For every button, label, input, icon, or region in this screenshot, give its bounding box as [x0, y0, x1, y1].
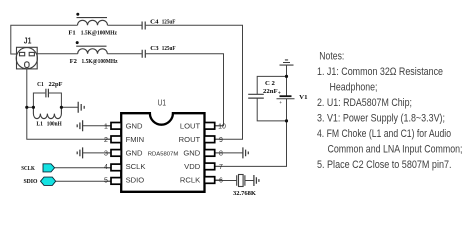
svg-text:C1: C1 — [37, 81, 44, 88]
svg-text:9: 9 — [219, 137, 223, 144]
svg-text:2: 2 — [104, 137, 108, 144]
svg-text:SDIO: SDIO — [24, 178, 38, 185]
svg-text:1.5K@100MHz: 1.5K@100MHz — [81, 29, 117, 36]
svg-text:125uF: 125uF — [162, 45, 176, 52]
svg-text:F2: F2 — [70, 58, 77, 65]
svg-text:6: 6 — [219, 178, 223, 185]
svg-text:4. FM Choke (L1 and C1) for Au: 4. FM Choke (L1 and C1) for Audio — [317, 128, 451, 140]
svg-text:GND: GND — [126, 122, 143, 131]
svg-text:1: 1 — [104, 123, 108, 130]
svg-text:U1: U1 — [158, 99, 167, 108]
svg-text:Notes:: Notes: — [319, 51, 344, 63]
svg-text:1.5K@100MHz: 1.5K@100MHz — [82, 58, 118, 65]
svg-text:4: 4 — [104, 164, 108, 171]
svg-text:V1: V1 — [299, 94, 307, 101]
svg-text:F1: F1 — [68, 29, 75, 36]
svg-text:125uF: 125uF — [162, 18, 176, 25]
svg-text:RCLK: RCLK — [180, 176, 200, 185]
svg-text:22nF: 22nF — [263, 88, 278, 95]
svg-text:+: + — [278, 91, 281, 97]
svg-text:Headphone;: Headphone; — [330, 82, 378, 94]
svg-text:L1: L1 — [36, 120, 43, 127]
svg-text:3: 3 — [104, 150, 108, 157]
svg-text:SCLK: SCLK — [126, 162, 146, 171]
svg-text:5: 5 — [104, 178, 108, 185]
svg-text:J1: J1 — [24, 36, 32, 46]
svg-text:VDD: VDD — [184, 162, 201, 171]
svg-text:10: 10 — [218, 123, 226, 130]
svg-text:8: 8 — [219, 150, 223, 157]
svg-text:FMIN: FMIN — [126, 135, 145, 144]
svg-text:7: 7 — [219, 164, 223, 171]
svg-text:1. J1: Common 32Ω Resistance: 1. J1: Common 32Ω Resistance — [317, 66, 443, 78]
svg-text:RDA5807M: RDA5807M — [148, 151, 179, 157]
svg-text:C4: C4 — [150, 18, 159, 25]
svg-text:+: + — [279, 101, 282, 106]
svg-text:Common and LNA Input Common;: Common and LNA Input Common; — [328, 144, 463, 156]
svg-text:SDIO: SDIO — [126, 176, 145, 185]
svg-text:C 2: C 2 — [265, 80, 275, 87]
svg-text:LOUT: LOUT — [180, 122, 201, 131]
svg-text:3. V1: Power Supply (1.8~3.3V): 3. V1: Power Supply (1.8~3.3V); — [317, 113, 445, 125]
svg-text:SCLK: SCLK — [21, 165, 35, 172]
svg-text:GND: GND — [183, 149, 200, 158]
svg-text:ROUT: ROUT — [179, 135, 201, 144]
svg-text:32.768K: 32.768K — [233, 190, 256, 197]
svg-text:2. U1: RDA5807M Chip;: 2. U1: RDA5807M Chip; — [317, 97, 412, 109]
svg-text:22pF: 22pF — [49, 81, 63, 88]
svg-text:5. Place C2 Close to 5807M pin: 5. Place C2 Close to 5807M pin7. — [317, 159, 452, 171]
svg-text:GND: GND — [126, 149, 143, 158]
svg-text:100nH: 100nH — [47, 120, 62, 127]
svg-text:C3: C3 — [150, 45, 158, 52]
